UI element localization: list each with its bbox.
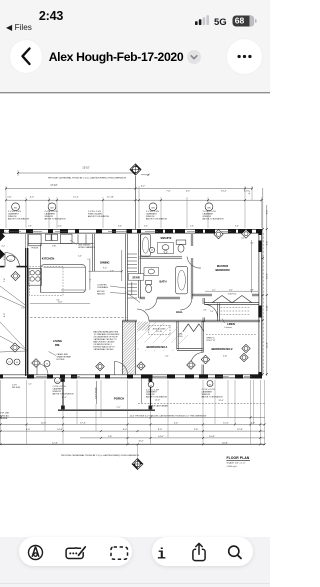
status bar time [35,9,67,23]
svg-text:13'-0": 13'-0" [267,273,269,279]
dashed selection rect icon [111,547,128,559]
svg-text:RM.: RM. [55,343,60,347]
svg-text:7'-0": 7'-0" [251,422,256,424]
top dim line 2 [6,188,252,190]
ensuite door arc [187,257,201,269]
svg-text:12'-6": 12'-6" [218,400,223,402]
svg-text:WINDOW: WINDOW [203,216,212,218]
svg-text:ABOVE TO ELEVATION: ABOVE TO ELEVATION [146,218,168,221]
svg-text:6' BI-FOLD: 6' BI-FOLD [228,293,237,295]
hatched wall east edge [135,321,137,374]
signal bars [195,15,209,25]
window note blocks [8,211,224,221]
svg-text:2'-0": 2'-0" [87,259,91,261]
svg-text:6'-0": 6'-0" [229,290,233,292]
svg-text:7'-6": 7'-6" [90,278,92,282]
svg-text:ROD TYP.: ROD TYP. [207,340,216,342]
small door tag diamonds [10,229,250,370]
svg-text:12'-8": 12'-8" [237,429,243,431]
kitchen/dining wall [93,234,95,272]
battery with percent [233,16,255,27]
toolbar icons [0,537,270,567]
svg-text:CASEMENT: CASEMENT [45,212,57,215]
stair west wall [126,234,128,321]
bedroom north wall a [122,320,137,322]
svg-text:MASTER: MASTER [217,264,228,268]
svg-text:STAIR: STAIR [132,276,140,279]
svg-text:4'-2": 4'-2" [267,210,269,215]
svg-text:LIVING: LIVING [53,339,62,343]
svg-text:2'-0"W x 3'-4"H: 2'-0"W x 3'-4"H [53,386,67,388]
laundry door leaf + edge markers [5,253,20,268]
right exterior wall [258,229,260,378]
svg-text:16'-8": 16'-8" [222,442,228,444]
note leader fan (left margin) [0,322,27,350]
svg-text:BATH: BATH [159,280,166,284]
svg-text:LINEN: LINEN [227,323,235,326]
svg-text:OF BEDROOM NO.1: OF BEDROOM NO.1 [94,344,112,346]
title chevron-down badge [187,50,201,64]
svg-text:FUTURE: FUTURE [57,359,66,361]
svg-text:11'-2": 11'-2" [73,196,79,198]
master bedroom door arc [180,298,192,310]
counter front edge [28,243,94,245]
svg-text:CONC: CONC [13,232,19,234]
burners [30,271,34,275]
master closet bifold doors [212,296,252,303]
svg-text:4'-2": 4'-2" [2,245,6,247]
bedroom1 closet bifold [183,324,204,332]
svg-text:FIXED (GLASS): FIXED (GLASS) [88,212,102,215]
toolbar pill left [19,537,132,566]
bedroom divider door arc [191,353,203,365]
svg-text:WINDOW: WINDOW [53,391,62,393]
svg-text:14'-8": 14'-8" [57,429,63,431]
svg-text:4'-2": 4'-2" [186,191,191,193]
centerline from top diamond [135,176,137,229]
svg-text:11'-4": 11'-4" [267,342,269,348]
svg-text:FOLD: FOLD [178,336,183,338]
svg-text:11'-6": 11'-6" [41,422,47,424]
attic access dashed box [149,326,170,335]
svg-text:6'-0": 6'-0" [118,226,122,228]
svg-text:24'-0" PROVIDE 6'-0" PRE-DRIL: 24'-0" PROVIDE 6'-0" PRE-DRIL CANTILEVER… [130,414,207,417]
svg-text:4'-0": 4'-0" [78,256,82,258]
svg-text:WINDOW: WINDOW [45,216,54,218]
master interior dim line [251,240,253,293]
svg-text:WINDOW: WINDOW [146,216,155,218]
master closet south wall a [192,294,212,296]
svg-text:ABOVE TO ELEVATION: ABOVE TO ELEVATION [8,218,30,221]
svg-text:2'-4": 2'-4" [210,311,214,313]
svg-text:CASEMENT: CASEMENT [203,212,215,215]
svg-text:17'-10": 17'-10" [50,185,57,187]
svg-text:4'-2": 4'-2" [249,190,251,195]
svg-text:2'-1": 2'-1" [212,290,216,292]
svg-text:APED ALL: APED ALL [0,414,10,417]
svg-text:7'-2": 7'-2" [116,407,120,409]
svg-text:12'-6": 12'-6" [155,400,160,402]
top extension verticals [6,170,262,228]
svg-text:4'-2": 4'-2" [250,243,254,245]
front door arc (porch) [115,362,128,375]
svg-text:9'-0": 9'-0" [158,429,163,431]
svg-text:CASED JMB: CASED JMB [57,353,69,356]
ensuite east / master west wall [191,234,193,246]
top exterior wall band [0,228,262,230]
svg-text:PROVIDE CATHEDRAL TRUSS AT 2'-: PROVIDE CATHEDRAL TRUSS AT 2'-0 (a CANTI… [48,176,126,179]
svg-text:4'-2": 4'-2" [241,238,245,240]
svg-text:RAILING: RAILING [97,292,105,295]
svg-text:1'-6": 1'-6" [7,196,12,198]
svg-text:9'-6": 9'-6" [267,241,269,246]
hatched wall west edge [121,321,123,374]
top diamond marker [130,164,141,175]
svg-text:41'-0": 41'-0" [138,441,143,443]
status bar back-to-Files breadcrumb [6,22,32,32]
svg-text:HALL: HALL [176,310,183,314]
svg-text:ABOVE TO ELEVATION: ABOVE TO ELEVATION [45,218,67,221]
nav more (•••) circle [227,39,262,74]
svg-text:1'-4": 1'-4" [28,384,32,386]
svg-text:OVERHANG: OVERHANG [97,286,109,289]
range [61,234,73,243]
top wall window center lines [8,231,231,233]
bedroom divider wall a [202,321,204,353]
svg-text:17'-4": 17'-4" [52,442,58,444]
stair label box [128,274,144,281]
svg-text:4'-0": 4'-0" [244,191,249,193]
room labels [42,237,235,400]
living-porch door arc [37,364,48,375]
bath toilet [146,281,152,285]
ensuite south wall [140,257,183,259]
signature text-field icon [66,548,83,559]
svg-text:5'-4": 5'-4" [174,422,179,424]
svg-text:6'-0": 6'-0" [123,429,128,431]
svg-text:SEE ELEV.: SEE ELEV. [12,387,21,389]
svg-text:KITCHEN: KITCHEN [42,257,54,261]
master closet dim line [205,290,258,292]
ensuite toilet [176,240,186,244]
left exterior wall (window gap above y248) [25,233,27,248]
bath tub [176,267,188,294]
bath door arc [145,298,157,310]
double sink [46,234,52,240]
svg-text:3'-4": 3'-4" [235,226,239,228]
svg-text:BEDROOM NO.1: BEDROOM NO.1 [146,345,168,349]
nav title [46,50,186,64]
bottom exterior wall band [0,374,262,376]
dashed property line right of wall [262,233,264,374]
svg-text:2'-0"W x 3'-4"H: 2'-0"W x 3'-4"H [203,211,217,213]
svg-text:1,200 sq ft: 1,200 sq ft [227,465,238,468]
linen north wall [204,303,259,305]
svg-text:SHELF &: SHELF & [207,337,216,339]
island counter [41,265,86,293]
svg-text:22 x 30: 22 x 30 [156,331,162,333]
bath vanity/sink [144,268,159,276]
svg-text:10'-8": 10'-8" [209,436,215,438]
svg-text:SCALE: 1/4" = 1'-0": SCALE: 1/4" = 1'-0" [227,462,246,465]
svg-text:9'-0": 9'-0" [4,313,6,318]
svg-text:17'-10": 17'-10" [107,196,114,198]
svg-text:9'-0": 9'-0" [103,268,107,270]
svg-text:CASEMENT: CASEMENT [8,212,20,215]
svg-text:ON UNDERSIDE OF ROOF: ON UNDERSIDE OF ROOF [94,336,119,338]
svg-text:ABOVE TO ELEVATION: ABOVE TO ELEVATION [203,218,225,221]
fridge [29,234,41,246]
linen shelves dashed [221,308,251,315]
svg-text:2'-0"W x 3'-4"H: 2'-0"W x 3'-4"H [146,211,160,213]
app chrome background (status + nav) [0,0,270,93]
ensuite vanity [158,243,174,254]
svg-text:2'-6": 2'-6" [190,226,194,228]
svg-text:BEDROOM NO.2: BEDROOM NO.2 [211,347,233,351]
toolbar pill right [152,537,254,566]
svg-text:3'-0": 3'-0" [203,310,207,312]
master west wall lower [191,258,193,299]
extension verticals to bottom dims [1,380,265,458]
bedroom no.1 door arc [137,309,149,321]
svg-text:1'-2": 1'-2" [21,308,25,310]
svg-text:13'-10": 13'-10" [82,168,89,170]
svg-text:11'-0": 11'-0" [223,422,229,424]
markup pen-in-circle icon [29,546,43,560]
svg-text:2'-8": 2'-8" [194,429,199,431]
svg-text:WINDOW: WINDOW [202,394,211,396]
svg-text:PORCH: PORCH [114,396,124,400]
kitchen west counter arm [40,244,42,293]
svg-text:3'-0": 3'-0" [144,226,148,228]
bottom-left cut note [0,413,10,420]
svg-text:4'-0": 4'-0" [26,429,31,431]
bedroom1 closet west wall [177,321,178,350]
bedroom north wall b [149,320,260,322]
circle tag letters [9,250,212,388]
bottom toolbar background strip [0,537,270,587]
bedroom1 closet south wall [177,349,203,351]
svg-text:ENSUITE: ENSUITE [161,237,172,240]
counter note leaders [110,286,126,288]
svg-text:2'-0"W x 3'-4"H: 2'-0"W x 3'-4"H [146,389,160,391]
bedroom no.2 vestibule door arc [204,304,217,317]
svg-text:5'-2": 5'-2" [4,256,6,261]
dining dim line [89,270,122,272]
svg-text:BEDROOM: BEDROOM [215,268,230,272]
svg-text:11'-6": 11'-6" [58,302,63,304]
bedroom2 shelf dashed [206,334,257,336]
svg-text:WINDOW: WINDOW [8,216,17,218]
svg-text:D.W.: D.W. [52,246,56,248]
svg-text:7'-6": 7'-6" [166,191,171,193]
bottom dim ticks [0,416,265,445]
svg-text:2'-0"W x 3'-4"H: 2'-0"W x 3'-4"H [8,211,22,213]
svg-text:2'-8": 2'-8" [250,290,254,292]
linen west wall [218,304,220,322]
porch note blocks [53,386,224,407]
hall north wall a [140,297,146,299]
right edge vertical dim lines [262,188,264,376]
svg-text:4'-6": 4'-6" [110,271,114,273]
svg-text:DINING: DINING [100,261,109,265]
svg-text:4'-2"H: 4'-2"H [12,385,17,387]
kitchen dim line [89,260,91,290]
svg-text:BROOM: BROOM [97,291,105,293]
svg-text:HATCHED AREA DENOTES: HATCHED AREA DENOTES [94,330,119,333]
edge diamond markers (half visible) [0,232,5,260]
svg-text:14'-0": 14'-0" [158,436,164,438]
svg-text:WINDOW: WINDOW [146,394,155,396]
svg-text:CONC: CONC [1,232,7,234]
hall north wall b [157,297,180,299]
svg-text:FRIDGE: FRIDGE [31,248,38,250]
dim ticks top [5,172,263,201]
svg-text:2'-0"W x 3'-4"H: 2'-0"W x 3'-4"H [45,211,59,213]
svg-text:3'-0": 3'-0" [58,226,62,228]
svg-text:7'-4": 7'-4" [4,278,6,283]
master closet south wall b [252,294,259,296]
ensuite tub [141,234,151,256]
svg-text:13'-2": 13'-2" [221,191,227,193]
laundry south wall with door gap [0,266,5,268]
svg-text:2'-0"W x 2'-0"H: 2'-0"W x 2'-0"H [88,211,102,213]
share icon [193,549,205,560]
svg-text:4'-0": 4'-0" [165,356,169,358]
misc note blocks [57,243,216,360]
window tag circles [7,203,214,387]
svg-text:4'-10": 4'-10" [223,356,228,358]
ensuite west wall [139,234,141,298]
svg-text:4'-2": 4'-2" [141,185,146,187]
hall east wall b [203,318,205,322]
svg-text:PROVIDE CATHEDRAL TRUSS AT 2'-: PROVIDE CATHEDRAL TRUSS AT 2'-0 (a CANTI… [61,454,139,457]
label backing (bedroom no.1) [139,343,176,350]
svg-text:8x8 POST ABV: 8x8 POST ABV [95,386,98,398]
svg-text:GYP. USE: GYP. USE [0,413,10,415]
nav back button circle [10,40,43,73]
top dim line 1 [18,172,136,174]
svg-text:17'-6": 17'-6" [61,397,66,399]
svg-text:4'-10": 4'-10" [267,305,269,311]
svg-text:2'-8": 2'-8" [28,226,32,228]
svg-text:1'-6": 1'-6" [108,436,113,438]
svg-text:4' BI-: 4' BI- [178,333,182,335]
svg-text:8x8 CANTI BEAM: 8x8 CANTI BEAM [152,405,168,408]
svg-text:17'-3": 17'-3" [80,422,86,424]
island dashed clearance [30,267,64,296]
hall east wall a [203,298,205,304]
top dim line 3 [6,199,262,201]
svg-text:4'-2": 4'-2" [30,196,35,198]
svg-text:FLOOR PLAN: FLOOR PLAN [227,456,250,460]
svg-text:CASEMENT: CASEMENT [146,212,158,215]
svg-text:COUNTER: COUNTER [97,284,107,286]
svg-text:2'-0"W x 3'-4"H: 2'-0"W x 3'-4"H [202,389,216,391]
status right: signal bars / 5G / battery [190,8,266,30]
svg-text:ABOVE TO ELEVATION: ABOVE TO ELEVATION [88,215,110,218]
bottom diamond marker [132,459,143,470]
svg-text:i: i [157,547,166,564]
bedroom divider wall b [202,365,204,376]
sheet top border [0,92,270,94]
title underline [226,459,250,461]
search magnifier icon [229,546,239,556]
cooktop box [28,269,41,286]
svg-text:5 shelves: 5 shelves [224,327,232,329]
